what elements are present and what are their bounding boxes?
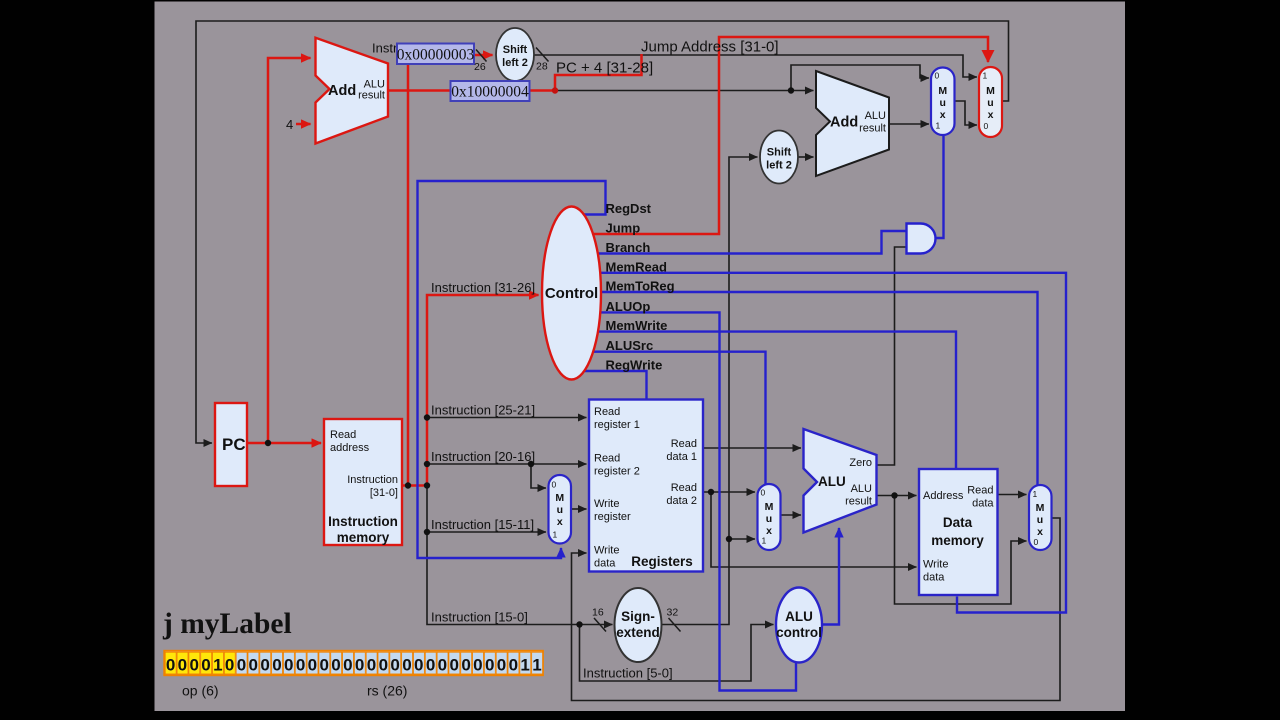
binary field bit cells: [165, 652, 176, 674]
svg-text:result: result: [859, 123, 886, 135]
wire: instruction [20-16] to Read register 2: [427, 463, 587, 465]
wire: branch Add result to branch mux input 1: [889, 123, 929, 125]
wire: PC+4 up to branch mux input 0: [791, 65, 929, 91]
svg-text:16: 16: [592, 607, 604, 619]
wire: MemToReg control to memtoreg mux (blue): [575, 292, 1038, 486]
junction PC+4 at value box (red): [552, 87, 558, 93]
svg-text:Add: Add: [328, 83, 356, 99]
svg-text:1: 1: [213, 656, 222, 675]
svg-text:0: 0: [485, 656, 494, 675]
wire: PC+4 to branch Add: [555, 90, 814, 92]
junction PC output: [265, 440, 271, 446]
instruction memory: [324, 419, 402, 545]
svg-text:4: 4: [286, 117, 293, 132]
wire: memtoreg mux output writeback to Registers Write data: [572, 518, 1061, 701]
wire: ALUOp control to ALU control (blue): [575, 312, 796, 690]
svg-text:ALU: ALU: [785, 609, 813, 624]
svg-text:u: u: [766, 513, 772, 525]
svg-text:data: data: [923, 572, 945, 584]
svg-text:address: address: [330, 442, 370, 454]
svg-text:0: 0: [272, 656, 281, 675]
svg-text:u: u: [987, 97, 993, 109]
value box 0x00000003: [397, 44, 474, 65]
svg-text:0: 0: [296, 656, 305, 675]
svg-text:register 1: register 1: [594, 419, 640, 431]
svg-text:0: 0: [201, 656, 210, 675]
wire: jump address to jump mux input 1: [534, 55, 978, 77]
wire: ALU result to Data memory Address: [877, 495, 917, 497]
svg-text:u: u: [939, 97, 945, 109]
ALU U1: [804, 429, 877, 533]
wire: constant 4 into Add (red): [296, 123, 311, 126]
junction instruction 25-21: [424, 414, 430, 420]
svg-text:0: 0: [984, 121, 989, 131]
svg-text:Jump: Jump: [606, 221, 641, 236]
svg-text:M: M: [938, 85, 947, 97]
wire: PC feedback loop from jump mux output to PC input: [196, 21, 1009, 443]
binary instruction field background: [164, 651, 543, 675]
svg-text:register 2: register 2: [594, 466, 640, 478]
wire: instruction [15-11] to regdst mux input 1: [427, 531, 546, 533]
wire: Instruction memory output (red): [402, 484, 427, 487]
svg-text:0: 0: [249, 656, 258, 675]
svg-text:M: M: [986, 85, 995, 97]
svg-text:MemWrite: MemWrite: [606, 318, 668, 333]
adder Add (branch target): [816, 71, 889, 176]
wire: RegWrite control to Registers (blue): [575, 371, 647, 401]
svg-text:x: x: [940, 109, 946, 121]
AND gate (branch): [907, 224, 936, 254]
svg-text:0: 0: [761, 488, 766, 498]
svg-text:ALU: ALU: [851, 483, 872, 495]
mux branch: [931, 68, 955, 136]
wire: ALU control output to ALU (blue): [822, 528, 839, 625]
svg-text:Sign-: Sign-: [621, 609, 655, 624]
bus width slash 26: [476, 50, 487, 62]
svg-text:32: 32: [667, 607, 679, 619]
svg-text:data: data: [594, 558, 616, 570]
svg-text:26: 26: [474, 61, 486, 73]
svg-text:Instruction [25-21]: Instruction [25-21]: [431, 403, 535, 418]
svg-text:Instruction [31-26]: Instruction [31-26]: [431, 280, 535, 295]
svg-text:PC + 4 [31-28]: PC + 4 [31-28]: [556, 60, 653, 77]
junction sign extend out: [726, 536, 732, 542]
svg-text:28: 28: [536, 61, 548, 73]
svg-text:u: u: [557, 504, 563, 516]
svg-text:rs (26): rs (26): [367, 683, 407, 699]
svg-text:Data: Data: [943, 515, 973, 530]
svg-text:0: 0: [284, 656, 293, 675]
wire: instruction [5-0] to ALU control: [580, 625, 774, 682]
bus width slash 16: [594, 618, 606, 632]
wire: Read data 1 to ALU: [703, 447, 801, 449]
svg-text:0: 0: [178, 656, 187, 675]
svg-text:Instruction [5-0]: Instruction [5-0]: [583, 666, 673, 681]
svg-text:0: 0: [390, 656, 399, 675]
bus width slash 28: [536, 48, 549, 62]
wire: branch shift left 2 to branch Add: [798, 156, 814, 158]
svg-text:MemRead: MemRead: [606, 259, 667, 274]
svg-text:Instruction: Instruction: [347, 474, 398, 486]
svg-text:0: 0: [438, 656, 447, 675]
svg-text:x: x: [988, 109, 994, 121]
svg-text:RegWrite: RegWrite: [606, 358, 663, 373]
wire: sign-extend output to ALUSrc mux input 1: [729, 538, 755, 540]
registers file: [589, 400, 703, 572]
wire: ALU result bypass to memtoreg mux input 0: [895, 496, 1027, 605]
svg-text:Branch: Branch: [606, 240, 651, 255]
wire: PC output to Instruction memory (red): [248, 442, 322, 445]
svg-text:M: M: [765, 501, 774, 513]
svg-text:0: 0: [497, 656, 506, 675]
mux jump: [979, 67, 1002, 137]
svg-text:Write: Write: [923, 559, 948, 571]
svg-text:Instruction: Instruction: [328, 514, 398, 529]
ALU control unit: [776, 588, 822, 663]
wire: RegDst control to regdst mux (blue): [418, 181, 606, 558]
svg-text:Add: Add: [830, 115, 858, 131]
svg-text:0: 0: [343, 656, 352, 675]
mux ALUSrc: [758, 484, 781, 550]
shift left 2 (branch): [760, 131, 798, 184]
svg-text:u: u: [1037, 514, 1043, 526]
svg-text:1: 1: [1033, 489, 1038, 499]
svg-text:Instruction [15-11]: Instruction [15-11]: [431, 517, 534, 532]
svg-text:ALUOp: ALUOp: [606, 299, 651, 314]
svg-text:0: 0: [367, 656, 376, 675]
wire: regdst mux output to Write register: [572, 508, 587, 510]
svg-text:0: 0: [509, 656, 518, 675]
wire: MemRead control to Data memory (blue): [575, 273, 1066, 613]
svg-text:Registers: Registers: [631, 554, 693, 569]
svg-text:Read: Read: [330, 429, 356, 441]
svg-text:0x10000004: 0x10000004: [451, 84, 529, 101]
svg-text:data 2: data 2: [666, 495, 697, 507]
svg-text:0: 0: [1034, 537, 1039, 547]
svg-text:result: result: [845, 496, 872, 508]
svg-text:left 2: left 2: [766, 160, 792, 172]
svg-text:1: 1: [983, 71, 988, 81]
svg-text:MemToReg: MemToReg: [606, 279, 675, 294]
svg-text:data: data: [972, 498, 994, 510]
svg-text:x: x: [766, 525, 772, 537]
svg-text:data 1: data 1: [666, 451, 697, 463]
data memory: [919, 469, 998, 595]
svg-text:0x00000003: 0x00000003: [397, 47, 475, 64]
svg-text:0: 0: [414, 656, 423, 675]
svg-text:j myLabel: j myLabel: [162, 608, 292, 640]
svg-text:1: 1: [553, 530, 558, 540]
svg-text:0: 0: [461, 656, 470, 675]
svg-text:Read: Read: [594, 406, 620, 418]
wire: Add ALU result PC+4 (red): [388, 89, 555, 92]
svg-text:M: M: [555, 492, 564, 504]
wire: ALUSrc control to ALUSrc mux (blue): [575, 352, 766, 485]
svg-text:1: 1: [936, 121, 941, 131]
svg-text:Read: Read: [671, 438, 697, 450]
wire: ALUSrc mux output to ALU: [781, 514, 802, 516]
junction instruction out A: [405, 482, 411, 488]
svg-text:Jump Address [31-0]: Jump Address [31-0]: [641, 39, 779, 56]
svg-text:0: 0: [473, 656, 482, 675]
svg-text:ALU: ALU: [818, 474, 846, 489]
wire: Jump control signal to jump mux (red): [575, 37, 988, 234]
svg-text:Instruction [15-0]: Instruction [15-0]: [431, 610, 528, 625]
wire: MemWrite control to Data memory (blue): [575, 332, 956, 470]
wire: ALU Zero to AND gate: [877, 247, 907, 465]
svg-text:0: 0: [935, 71, 940, 81]
svg-text:control: control: [776, 625, 822, 640]
svg-text:0: 0: [449, 656, 458, 675]
svg-text:0: 0: [552, 480, 557, 490]
svg-text:Write: Write: [594, 545, 619, 557]
svg-text:0: 0: [402, 656, 411, 675]
wire: AND gate output to branch mux select (blue): [936, 136, 944, 238]
wire: PC output up to Add (red): [268, 58, 311, 443]
svg-text:ALU: ALU: [865, 110, 886, 122]
svg-text:[31-0]: [31-0]: [370, 487, 398, 499]
svg-text:0: 0: [237, 656, 246, 675]
wire: Read data 2 to Data memory Write data: [711, 492, 917, 567]
svg-text:op (6): op (6): [182, 683, 219, 699]
svg-text:0: 0: [355, 656, 364, 675]
svg-text:Control: Control: [545, 285, 598, 302]
svg-text:0: 0: [260, 656, 269, 675]
mux regdst: [549, 475, 572, 544]
svg-text:M: M: [1036, 502, 1045, 514]
svg-text:memory: memory: [931, 533, 984, 548]
svg-text:extend: extend: [616, 625, 660, 640]
junction ALU result: [891, 492, 897, 498]
adder Add (PC+4): [316, 38, 389, 144]
value box 0x10000004: [451, 81, 530, 101]
svg-text:Read: Read: [594, 453, 620, 465]
junction instruction 20-16: [424, 461, 430, 467]
svg-text:Read: Read: [967, 485, 993, 497]
svg-text:Address: Address: [923, 490, 964, 502]
svg-text:0: 0: [308, 656, 317, 675]
junction instruction out B: [424, 482, 430, 488]
wire: instruction [25-0] up to shift left 2 (red): [408, 55, 493, 486]
mux memtoreg: [1029, 485, 1052, 550]
wire: Read data 2 to ALUSrc mux input 0: [703, 491, 755, 493]
junction mux branch 20-16: [528, 461, 534, 467]
wire: instruction [20-16] to regdst mux input 0: [531, 464, 546, 488]
svg-text:Read: Read: [671, 482, 697, 494]
svg-text:0: 0: [225, 656, 234, 675]
junction instruction 15-11: [424, 529, 430, 535]
sign-extend unit: [615, 588, 662, 662]
svg-text:0: 0: [189, 656, 198, 675]
svg-text:0: 0: [319, 656, 328, 675]
svg-text:Instruction [20-16]: Instruction [20-16]: [431, 449, 535, 464]
svg-text:left 2: left 2: [502, 57, 528, 69]
svg-text:memory: memory: [337, 530, 390, 545]
svg-text:PC: PC: [222, 435, 246, 454]
svg-text:0: 0: [331, 656, 340, 675]
svg-text:Write: Write: [594, 498, 619, 510]
svg-text:0: 0: [166, 656, 175, 675]
svg-text:1: 1: [532, 656, 541, 675]
wire: instruction [31-26] to Control (red): [427, 295, 539, 486]
gray video frame area: [155, 2, 1126, 712]
svg-text:0: 0: [379, 656, 388, 675]
shift left 2 (jump): [496, 28, 534, 81]
wire: Data memory Read data to memtoreg mux input 1: [998, 494, 1027, 496]
svg-text:Zero: Zero: [849, 457, 872, 469]
wire: Branch control to AND gate (blue): [575, 231, 906, 254]
wire: PC+4 [31-28] riser to jump address (red): [555, 54, 642, 91]
bus width slash 32: [669, 618, 681, 632]
wire: branch mux output to jump mux input 0: [955, 101, 978, 125]
svg-text:ALUSrc: ALUSrc: [606, 338, 654, 353]
register PC: [215, 403, 247, 486]
svg-text:0: 0: [426, 656, 435, 675]
junction instruction 5-0: [576, 621, 582, 627]
svg-text:1: 1: [762, 536, 767, 546]
svg-text:Shift: Shift: [503, 44, 528, 56]
wire: sign-extend output up to branch shift left 2: [662, 157, 758, 625]
svg-text:1: 1: [520, 656, 529, 675]
wire: instruction [25-21] to Read register 1: [427, 417, 587, 419]
svg-text:register: register: [594, 511, 631, 523]
control unit ellipse: [542, 207, 601, 380]
svg-text:result: result: [358, 90, 385, 102]
svg-text:RegDst: RegDst: [606, 201, 652, 216]
junction read data 2: [708, 489, 714, 495]
junction PC+4 branch adder: [788, 87, 794, 93]
wire: instruction [15-0] to sign-extend: [427, 486, 613, 625]
svg-text:Shift: Shift: [767, 147, 792, 159]
svg-text:x: x: [557, 516, 563, 528]
